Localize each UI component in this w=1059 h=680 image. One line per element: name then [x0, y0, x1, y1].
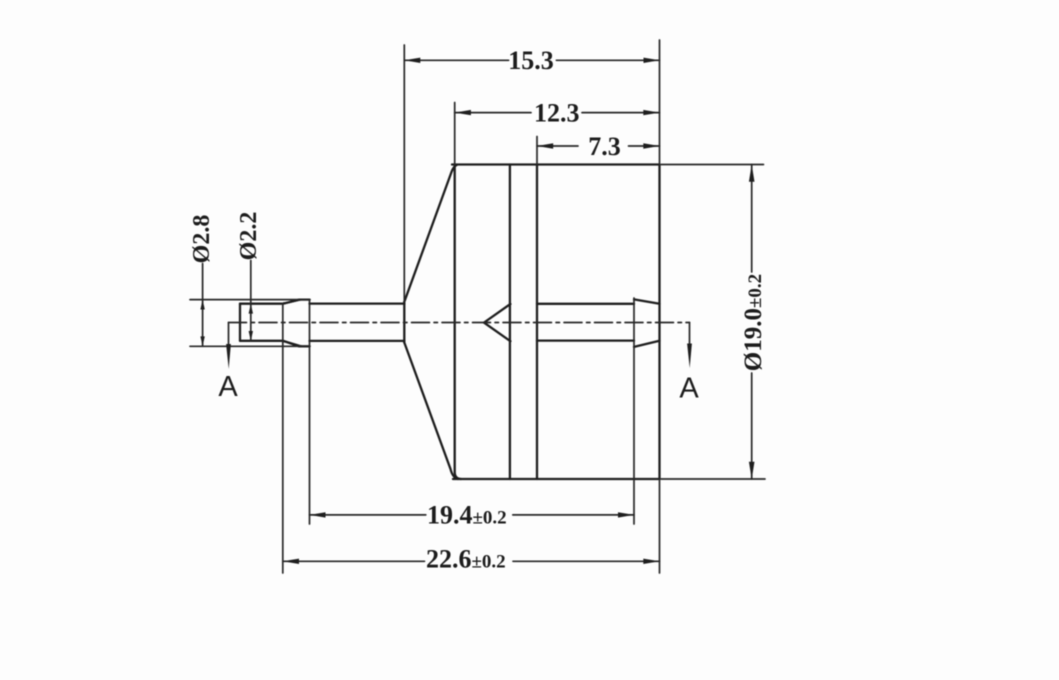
body bottom edge	[453, 478, 660, 480]
arrowhead dia2.8 up	[200, 300, 204, 310]
left barb top edge	[240, 300, 310, 304]
body right face	[658, 165, 660, 480]
right port top wall	[537, 303, 634, 305]
extension line dia19 top	[661, 164, 764, 166]
extension line dia2.8 bottom	[190, 345, 310, 347]
extension line 19.4 right	[633, 298, 635, 524]
arrowhead 12.3 right	[643, 110, 659, 115]
centerline axis	[229, 322, 690, 324]
arrowhead 22.6 left	[283, 559, 299, 564]
svg-text:Ø2.2: Ø2.2	[236, 212, 262, 261]
right port bottom wall	[537, 339, 634, 341]
extension line dia2.8 top	[190, 299, 310, 301]
arrowhead dia2.2 up	[249, 304, 253, 314]
body left face	[455, 165, 461, 480]
arrowhead 19.4 left	[310, 512, 326, 517]
dimension line 22.6	[283, 560, 660, 562]
arrowhead dia19 top	[749, 165, 755, 182]
extension line 22.6 left (through barb)	[282, 304, 284, 573]
dimension line dia19	[751, 165, 753, 480]
left barb top flare wedge	[283, 300, 305, 305]
extension line dia19 bottom	[661, 478, 765, 480]
dimension leader dia2.8	[202, 264, 204, 347]
svg-text:A: A	[679, 373, 699, 405]
svg-text:15.3: 15.3	[508, 46, 554, 75]
arrowhead 15.3 left	[404, 58, 420, 63]
arrowhead 12.3 left	[455, 110, 471, 115]
extension line right lower	[659, 479, 661, 573]
extension line 7.3 left	[536, 137, 538, 165]
extension line 19.4 left (through barb)	[309, 300, 311, 524]
dimension line 19.4	[310, 514, 635, 516]
body top edge	[452, 163, 660, 165]
arrowhead 19.4 right	[618, 512, 634, 517]
dimension line 7.3	[537, 145, 660, 147]
section line left	[228, 323, 230, 350]
right flare bottom slant	[634, 341, 660, 347]
left barb tip face	[239, 304, 241, 341]
right flare top slant	[634, 299, 660, 303]
svg-text:A: A	[218, 371, 238, 403]
section arrow left	[226, 344, 231, 369]
small tube top edge	[310, 302, 405, 304]
left barb bottom edge	[240, 341, 310, 347]
section arrow right	[687, 344, 692, 369]
arrowhead 7.3 right	[643, 143, 659, 148]
arrowhead dia2.8 down	[200, 336, 204, 346]
cone base edge	[403, 302, 405, 343]
dimension line 12.3	[455, 112, 660, 114]
extension line 15.3 left	[403, 45, 405, 302]
cone top slant	[404, 165, 457, 302]
arrowhead 15.3 right	[644, 58, 660, 63]
svg-text:Ø2.8: Ø2.8	[189, 215, 215, 264]
dimension line 15.3	[404, 59, 659, 61]
svg-text:19.4±0.2: 19.4±0.2	[427, 501, 507, 530]
svg-text:Ø19.0±0.2: Ø19.0±0.2	[740, 274, 767, 371]
svg-text:7.3: 7.3	[588, 132, 621, 161]
body ring line 2	[536, 165, 538, 480]
svg-text:12.3: 12.3	[534, 98, 580, 127]
small tube bottom edge	[310, 340, 405, 342]
arrowhead dia2.2 down	[249, 331, 253, 341]
dimension leader dia2.2	[250, 261, 252, 341]
internal bore cone	[484, 304, 510, 341]
svg-text:22.6±0.2: 22.6±0.2	[426, 545, 506, 574]
section line right	[689, 323, 691, 349]
extension line right common	[659, 40, 661, 165]
body ring line 1	[509, 165, 511, 480]
arrowhead 22.6 right	[643, 559, 659, 564]
arrowhead dia19 bottom	[749, 462, 755, 479]
cone bottom slant	[404, 343, 458, 480]
extension line 12.3 left	[454, 103, 456, 165]
left barb bottom flare wedge	[283, 340, 305, 347]
arrowhead 7.3 left	[537, 143, 553, 148]
